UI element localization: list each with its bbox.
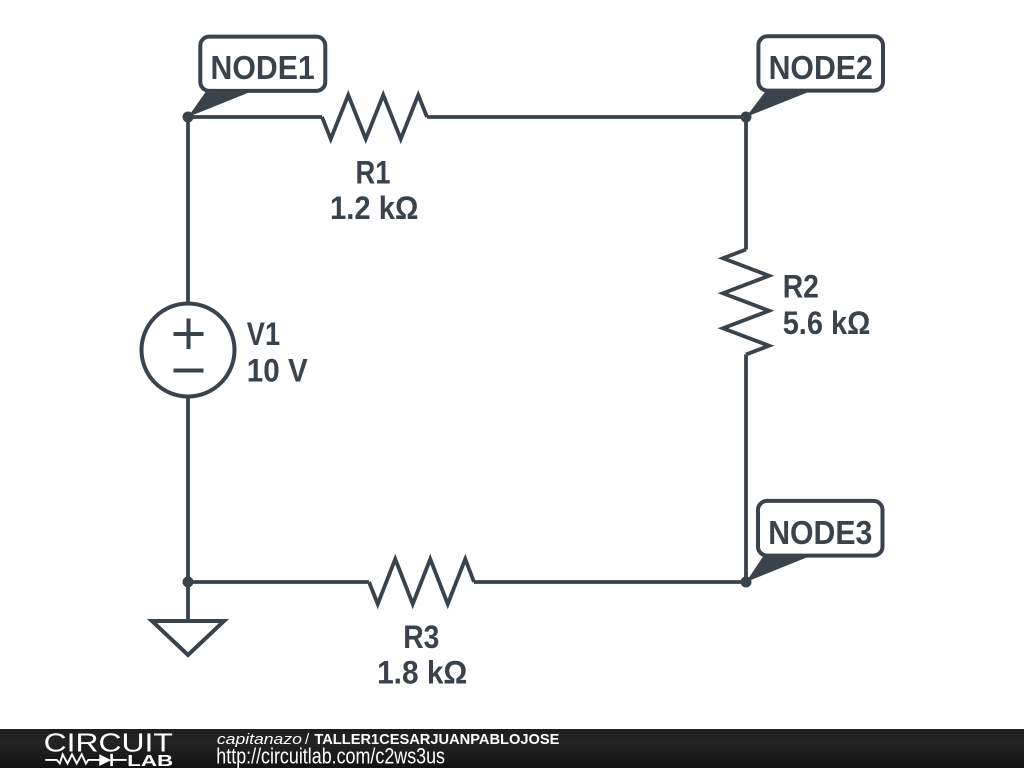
ground — [152, 582, 224, 655]
resistor R2 — [723, 250, 769, 355]
resistor R1 — [322, 95, 427, 139]
svg-text:1.2 kΩ: 1.2 kΩ — [330, 190, 418, 226]
node B junction dot NODE2 — [741, 112, 752, 123]
node NODE1 flag tail — [188, 91, 253, 117]
footer bar — [0, 729, 1024, 768]
svg-text:R2: R2 — [783, 269, 819, 305]
svg-text:R3: R3 — [403, 619, 439, 655]
wire left: NODE1 to V1 and V1 to ground node — [186, 117, 190, 582]
node NODE2 flag tail — [746, 91, 811, 117]
node D junction dot ground — [183, 577, 194, 588]
svg-text:V1: V1 — [247, 316, 280, 352]
node NODE3 flag tail — [746, 556, 810, 582]
wire top: NODE1 to NODE2 — [188, 115, 746, 119]
CircuitLab logo resistor-diode glyph — [45, 754, 127, 766]
node NODE3 flag box — [758, 501, 883, 556]
node C junction dot NODE3 — [741, 577, 752, 588]
node NODE2 flag box — [758, 36, 883, 90]
svg-text:NODE3: NODE3 — [768, 514, 872, 551]
node NODE1 flag box — [200, 37, 325, 91]
resistor R3 — [369, 559, 474, 604]
wire bottom: ground node to NODE3 — [188, 580, 746, 584]
svg-text:NODE1: NODE1 — [211, 49, 315, 86]
wire right: NODE2 to NODE3 — [744, 117, 748, 582]
node A junction dot NODE1 — [183, 112, 194, 123]
voltage source V1 — [142, 304, 235, 397]
svg-text:1.8 kΩ: 1.8 kΩ — [377, 655, 467, 691]
svg-text:R1: R1 — [356, 155, 391, 191]
svg-text:http://circuitlab.com/c2ws3us: http://circuitlab.com/c2ws3us — [216, 744, 445, 768]
svg-text:5.6 kΩ: 5.6 kΩ — [783, 305, 871, 341]
svg-text:NODE2: NODE2 — [769, 49, 873, 86]
svg-text:10 V: 10 V — [247, 352, 309, 388]
svg-text:LAB: LAB — [127, 753, 173, 768]
